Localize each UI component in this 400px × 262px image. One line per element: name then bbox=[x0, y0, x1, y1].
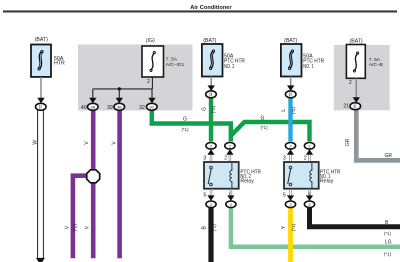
svg-text:G: G bbox=[183, 117, 187, 123]
svg-text:40: 40 bbox=[81, 105, 87, 111]
svg-text:Air Conditioner: Air Conditioner bbox=[190, 5, 232, 11]
svg-text:V: V bbox=[84, 141, 90, 145]
label (*1) (left segment) bbox=[181, 127, 189, 132]
splice octagon on V wire bbox=[87, 170, 100, 183]
label 50A PTC HTR NO.2 bbox=[224, 54, 245, 71]
label LG bbox=[385, 240, 392, 246]
label (*1) (right segment) bbox=[260, 125, 268, 130]
title rule bbox=[3, 10, 397, 12]
left relay pin2 stub+arrow bbox=[226, 149, 233, 162]
label pin 21 bbox=[343, 104, 349, 110]
label pin 39 bbox=[107, 105, 113, 111]
svg-text:LG: LG bbox=[385, 240, 392, 246]
svg-text:Relay: Relay bbox=[240, 178, 254, 184]
wire G from pin 32 down, right, down to relay pin 2 bbox=[152, 108, 231, 142]
label G (right segment) bbox=[261, 116, 265, 122]
svg-text:(*2): (*2) bbox=[211, 224, 216, 232]
bus wire to pins 40/39/32 bbox=[93, 88, 153, 90]
svg-text:A/C–B: A/C–B bbox=[369, 62, 383, 68]
right relay pin2 stub+arrow bbox=[306, 149, 313, 162]
connector oval (fuse4) bbox=[285, 91, 296, 98]
wire B from left relay pin 5 to bottom bbox=[208, 206, 213, 262]
connector oval (HTR fuse to W wire) bbox=[36, 103, 47, 110]
svg-text:G: G bbox=[261, 116, 265, 122]
label GR (vertical, rotated) bbox=[345, 138, 351, 146]
wire B from right relay pin 1 down and right to edge bbox=[310, 206, 400, 227]
label G (left segment) bbox=[183, 117, 187, 123]
label pin 40 bbox=[81, 105, 87, 111]
fuse 50A HTR box bbox=[31, 45, 51, 77]
connector oval pin 39 bbox=[114, 103, 125, 110]
right relay pin1 stub+arrow bbox=[306, 189, 313, 201]
label pin 3 (right relay) bbox=[283, 156, 286, 162]
svg-text:3B: 3B bbox=[117, 105, 122, 109]
label (*1) (right relay B wire) bbox=[384, 231, 392, 236]
svg-text:2: 2 bbox=[230, 203, 232, 207]
svg-text:(BAT): (BAT) bbox=[35, 37, 48, 43]
fuse 50A PTC HTR NO.1 box bbox=[281, 44, 302, 77]
connector oval pin 40 bbox=[88, 103, 99, 110]
fuse2 lead down to bus bbox=[151, 77, 153, 89]
svg-text:3B: 3B bbox=[90, 105, 95, 109]
svg-text:2: 2 bbox=[304, 156, 307, 162]
svg-text:B: B bbox=[202, 225, 208, 229]
svg-text:2: 2 bbox=[349, 80, 352, 86]
svg-text:2: 2 bbox=[229, 144, 231, 148]
fuse 50A PTC HTR NO.2 box bbox=[202, 44, 223, 77]
stub to pin 32 bbox=[148, 89, 155, 103]
svg-text:2: 2 bbox=[289, 144, 291, 148]
bottom connector oval pin1 (left relay) bbox=[226, 201, 236, 208]
svg-text:2: 2 bbox=[308, 144, 310, 148]
fuse 7.5A A/C-B box bbox=[346, 45, 365, 79]
label (*1) (Y wire) bbox=[291, 224, 296, 232]
svg-text:7. 5A: 7. 5A bbox=[369, 57, 381, 63]
bottom connector oval pin1 (right relay) bbox=[304, 201, 314, 208]
label B (left relay pin5) bbox=[202, 225, 208, 229]
fuse 50A HTR : (BAT) label bbox=[35, 37, 48, 43]
svg-text:(*1): (*1) bbox=[181, 127, 189, 132]
junction dot bbox=[118, 87, 121, 90]
svg-text:(*1): (*1) bbox=[291, 224, 296, 232]
bottom connector oval pin5 (left relay) bbox=[206, 201, 216, 208]
label V (pin40 wire, bottom) bbox=[84, 225, 90, 229]
svg-text:3C: 3C bbox=[149, 105, 154, 109]
relay PTC HTR NO.2 : top connector oval pin3 bbox=[206, 143, 216, 150]
svg-text:(*1): (*1) bbox=[260, 125, 268, 130]
relay block gray box (engine room R/B No.1) bbox=[78, 45, 193, 111]
svg-text:2: 2 bbox=[147, 79, 150, 85]
wire GR from pin 21 down and right to edge bbox=[356, 108, 400, 160]
svg-text:2: 2 bbox=[289, 203, 291, 207]
label (*2) footnote (fuse3 wire) bbox=[211, 106, 216, 114]
label pin 2 (left relay) bbox=[224, 156, 227, 162]
fuse 7.5A A/C-B : (BAT) label bbox=[350, 38, 363, 44]
label GR (horizontal) bbox=[384, 153, 392, 159]
svg-text:2: 2 bbox=[308, 203, 310, 207]
left relay pin1 stub+arrow bbox=[227, 189, 234, 201]
svg-text:V: V bbox=[64, 225, 70, 229]
bottom connector oval pin5 (right relay) bbox=[285, 201, 295, 208]
wire V from pin 39 to bottom bbox=[117, 108, 122, 258]
svg-text:1: 1 bbox=[308, 192, 311, 198]
svg-text:7. 5A: 7. 5A bbox=[166, 57, 178, 63]
svg-text:(*1): (*1) bbox=[384, 231, 392, 236]
connector oval (fuse3) bbox=[206, 91, 217, 98]
label L (blue wire) bbox=[281, 109, 287, 112]
svg-text:39: 39 bbox=[107, 105, 113, 111]
label pin 3 (left relay) bbox=[203, 156, 206, 162]
svg-text:GR: GR bbox=[345, 138, 351, 146]
svg-text:2: 2 bbox=[210, 203, 212, 207]
relay PTC HTR NO.2 box bbox=[204, 162, 239, 189]
left relay pin5 stub+arrow bbox=[207, 189, 214, 201]
svg-text:5: 5 bbox=[283, 192, 286, 198]
label PTC HTR NO.1 Relay bbox=[320, 169, 341, 184]
label PTC HTR NO.2 Relay bbox=[240, 169, 261, 184]
svg-text:Y: Y bbox=[281, 225, 287, 229]
fuse1 lead wire bbox=[37, 77, 44, 103]
fuse5 lead wire bbox=[353, 78, 360, 102]
label pin 32 bbox=[139, 105, 145, 111]
right relay pin3 stub+arrow bbox=[287, 149, 294, 162]
svg-text:(BAT): (BAT) bbox=[350, 38, 363, 44]
svg-text:(BAT): (BAT) bbox=[284, 38, 297, 44]
svg-text:GR: GR bbox=[384, 153, 392, 159]
wire W (white, outlined) from connector to bottom arrow bbox=[36, 110, 45, 262]
svg-text:(*2): (*2) bbox=[211, 106, 216, 114]
label (*2) footnote (blue wire) bbox=[291, 107, 296, 115]
wire L (blue) from fuse PTC HTR NO.1 down to relay pin 3 bbox=[288, 98, 292, 142]
svg-text:3: 3 bbox=[283, 156, 286, 162]
connector oval pin 21 bbox=[350, 103, 361, 110]
label V (branch wire, bottom) bbox=[64, 225, 70, 229]
svg-text:21: 21 bbox=[343, 104, 349, 110]
svg-text:(IG): (IG) bbox=[146, 38, 155, 44]
label (*2) (left relay pin5) bbox=[211, 224, 216, 232]
fuse 50A PTC HTR NO.1 : (BAT) label bbox=[284, 38, 297, 44]
wire LG from left relay pin 1 down and right to edge bbox=[231, 206, 400, 247]
label V (pin40 wire) bbox=[84, 141, 90, 145]
svg-text:HTR: HTR bbox=[54, 61, 65, 67]
svg-text:NO. 2: NO. 2 bbox=[224, 64, 234, 70]
svg-text:W: W bbox=[32, 140, 38, 145]
svg-text:(*2): (*2) bbox=[291, 107, 296, 115]
connector oval pin 32 bbox=[147, 103, 158, 110]
fuse3 lead wire bbox=[208, 77, 215, 92]
relay PTC HTR NO.1 box bbox=[284, 162, 319, 189]
wire Y from right relay pin 5 to bottom bbox=[288, 206, 293, 262]
stub to pin 40 bbox=[89, 89, 96, 103]
label (*1) (LG wire) bbox=[384, 251, 392, 256]
fuse 50A PTC HTR NO.2 : (BAT) label bbox=[203, 38, 216, 44]
svg-text:2: 2 bbox=[210, 144, 212, 148]
label pin 5 (left relay) bbox=[203, 192, 206, 198]
left relay pin3 stub+arrow bbox=[207, 149, 214, 162]
svg-text:5: 5 bbox=[203, 192, 206, 198]
label G (fuse3 wire) bbox=[202, 107, 208, 111]
svg-text:G: G bbox=[202, 107, 208, 111]
svg-text:(*1): (*1) bbox=[384, 251, 392, 256]
label pin 1 (right relay) bbox=[308, 192, 311, 198]
svg-text:2: 2 bbox=[224, 156, 227, 162]
label pin 2 (IG1 fuse) bbox=[147, 79, 150, 85]
svg-text:(*2): (*2) bbox=[72, 224, 77, 232]
label 7.5A A/C-B bbox=[369, 57, 383, 68]
wire V below splice to bottom bbox=[91, 183, 96, 258]
label pin 2 (right relay) bbox=[304, 156, 307, 162]
wire V (violet) from pin 40 down to splice bbox=[91, 108, 96, 170]
label pin 1 (left relay) bbox=[228, 192, 231, 198]
svg-text:L: L bbox=[281, 109, 287, 112]
svg-text:V: V bbox=[112, 141, 118, 145]
svg-text:3: 3 bbox=[203, 156, 206, 162]
svg-text:(BAT): (BAT) bbox=[203, 38, 216, 44]
top connector oval pin2 (right relay) bbox=[304, 143, 314, 150]
wire G branch diagonal and to right relay pin 2 bbox=[231, 122, 310, 142]
svg-text:32: 32 bbox=[139, 105, 145, 111]
label V (pin39 wire) bbox=[112, 141, 118, 145]
fuse 7.5A A/C-IG1 : (IG) label bbox=[146, 38, 155, 44]
top connector oval pin2 (left relay) bbox=[225, 143, 235, 150]
fuse 7.5A A/C-IG1 box bbox=[142, 46, 164, 77]
title: Air Conditioner bbox=[190, 5, 232, 11]
fuse4 lead wire bbox=[287, 77, 294, 92]
label 7.5A A/C-IG1 bbox=[166, 57, 185, 68]
wire G from fuse PTC HTR NO.2 down to relay pin 3 bbox=[209, 97, 213, 142]
label pin 5 (right relay) bbox=[283, 192, 286, 198]
right relay pin5 stub+arrow bbox=[287, 189, 294, 201]
label 50A PTC HTR NO.1 bbox=[303, 54, 324, 71]
label B (right relay pin1) bbox=[385, 220, 389, 226]
label 50A HTR bbox=[54, 56, 65, 67]
svg-text:1: 1 bbox=[228, 192, 231, 198]
relay block gray box (A/C-B block) bbox=[334, 45, 390, 110]
label Y bbox=[281, 225, 287, 229]
svg-text:NO. 1: NO. 1 bbox=[303, 64, 313, 70]
svg-text:A/C–IG1: A/C–IG1 bbox=[166, 62, 185, 68]
svg-text:Relay: Relay bbox=[320, 178, 334, 184]
label pin 2 (A/C-B fuse) bbox=[349, 80, 352, 86]
stub to pin 39 bbox=[116, 89, 123, 103]
label (*2) footnote (branch wire) bbox=[72, 224, 77, 232]
wire V branch from splice left then down bbox=[73, 176, 87, 259]
svg-text:V: V bbox=[84, 225, 90, 229]
relay PTC HTR NO.1 : top connector oval pin3 bbox=[285, 143, 295, 150]
label W (wire color) bbox=[32, 140, 38, 145]
